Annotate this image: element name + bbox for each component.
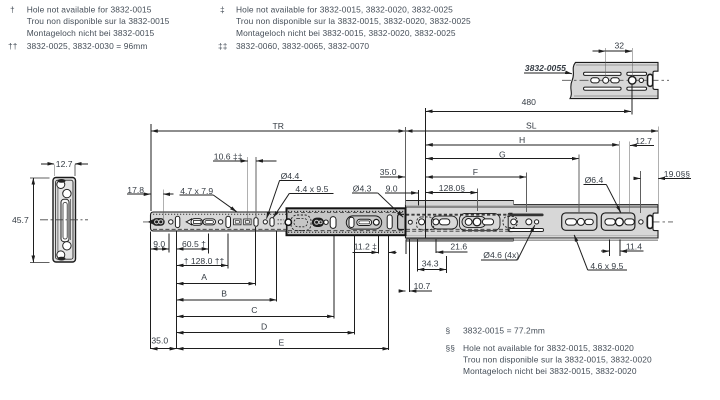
hole rect f: [234, 219, 241, 225]
svg-text:35.0: 35.0: [380, 167, 397, 177]
svg-text:Trou non disponible sur la 383: Trou non disponible sur la 3832-0015, 38…: [463, 355, 652, 365]
hole vertical slot e: [226, 216, 231, 227]
svg-text:H: H: [519, 135, 525, 145]
hidden dashed slot p: [417, 217, 434, 230]
leader 4.7 x 7.9: [180, 186, 237, 212]
svg-text:480: 480: [522, 97, 537, 107]
dim 12.7 right: [630, 136, 654, 213]
dim 19.0: [634, 169, 691, 213]
svg-text:Trou non disponible sur la 383: Trou non disponible sur la 3832-0015: [27, 16, 170, 26]
svg-text:10.6 ‡‡: 10.6 ‡‡: [214, 151, 243, 161]
ball bottom pair: [57, 251, 65, 259]
hole rect g: [244, 219, 251, 225]
hole vertical slot j: [270, 218, 274, 227]
dim 480: [426, 85, 632, 115]
intermediate rail overlap section: [287, 208, 406, 235]
dim 9.0 top: [385, 183, 418, 205]
dim 34.3: [417, 240, 446, 273]
svg-text:B: B: [221, 289, 227, 299]
svg-text:Ø6.4: Ø6.4: [585, 175, 604, 185]
dim 17.8: [127, 185, 174, 221]
svg-text:D: D: [261, 322, 267, 332]
hole circle t: [526, 219, 532, 225]
dim 11.4: [601, 240, 644, 257]
bracket slot o: [398, 214, 404, 229]
leader dia 4.3: [352, 184, 403, 218]
dim 35.0 bottom: [151, 336, 177, 349]
svg-text:‡: ‡: [220, 5, 225, 15]
shared extension line 480-H: [425, 108, 427, 238]
svg-text:32: 32: [615, 41, 625, 51]
hole circle a: [169, 220, 173, 224]
dim C: [177, 236, 334, 319]
svg-text:Hole not available for 3832-00: Hole not available for 3832-0015, 3832-0…: [236, 5, 453, 15]
svg-text:Hole not available for 3832-00: Hole not available for 3832-0015, 3832-0…: [463, 343, 634, 353]
intermediate rail bottom lip: [406, 238, 514, 241]
slot group outline m: [346, 216, 381, 229]
svg-text:Ø4.4: Ø4.4: [281, 171, 300, 181]
hidden dashed slot s: [503, 216, 518, 227]
svg-text:10.7: 10.7: [414, 281, 431, 291]
svg-text:4.4 x 9.5: 4.4 x 9.5: [295, 184, 328, 194]
svg-text:21.6: 21.6: [450, 242, 467, 252]
svg-text:Montageloch nicht bei 3832-001: Montageloch nicht bei 3832-0015, 3832-00…: [236, 28, 456, 38]
note section sign bottom-right: [446, 326, 546, 336]
slot group r: [459, 213, 500, 230]
outer cabinet rail: [406, 205, 659, 241]
hole circle k: [324, 220, 328, 224]
svg-text:128.0§: 128.0§: [439, 183, 466, 193]
dim TR: [151, 121, 405, 211]
retainer cap top: [58, 179, 66, 183]
svg-text:9.0: 9.0: [386, 183, 398, 193]
svg-text:† 128.0 ††: † 128.0 ††: [184, 256, 225, 266]
note double dagger equation: [8, 41, 148, 51]
svg-text:E: E: [279, 338, 285, 348]
hole circle u: [535, 220, 539, 224]
svg-text:35.0: 35.0: [151, 336, 168, 346]
svg-text:45.7: 45.7: [12, 215, 29, 225]
svg-text:12.7: 12.7: [635, 136, 652, 146]
detail top slots: [584, 72, 622, 75]
section inner shell line: [56, 180, 73, 259]
hole circle d: [218, 220, 222, 224]
hidden hole dashes: [278, 220, 284, 224]
dim 35.0 top: [380, 167, 405, 177]
ball circle overlap: [285, 219, 291, 225]
intermediate rail hidden slot bars: [406, 213, 544, 231]
dim 45.7 section height: [12, 178, 50, 262]
dim 10.7: [399, 240, 432, 293]
retainer dark stadium: [312, 218, 324, 227]
dim B: [177, 232, 277, 302]
hole circle front: [408, 220, 412, 224]
dim 21.6: [436, 240, 467, 254]
retainer cap bottom: [58, 257, 66, 261]
svg-text:Hole not available for 3832-00: Hole not available for 3832-0015: [27, 5, 152, 15]
dim A: [177, 227, 256, 286]
label 3832-0055: [524, 63, 572, 74]
cross-section view: [40, 178, 88, 263]
svg-text:F: F: [473, 167, 478, 177]
hole circle x: [639, 220, 643, 224]
svg-text:60.5 †: 60.5 †: [182, 239, 206, 249]
svg-text:SL: SL: [526, 121, 537, 131]
leader 4.6 x 9.5: [574, 235, 627, 271]
dim D: [177, 236, 355, 335]
ball top pair: [57, 181, 65, 189]
note block dagger top-left: [10, 5, 170, 38]
dim 128.0 section: [426, 183, 478, 211]
svg-text:4.6 x 9.5: 4.6 x 9.5: [590, 261, 623, 271]
svg-text:††: ††: [8, 41, 18, 51]
svg-text:C: C: [251, 305, 257, 315]
svg-text:§: §: [446, 326, 451, 336]
svg-text:3832-0025, 3832-0030 = 96mm: 3832-0025, 3832-0030 = 96mm: [27, 41, 148, 51]
svg-text:3832-0015 = 77.2mm: 3832-0015 = 77.2mm: [463, 326, 545, 336]
dim F: [426, 167, 526, 212]
dim 60.5: [177, 234, 209, 254]
svg-text:A: A: [201, 272, 207, 282]
detail view rail 3832-0055: [562, 62, 669, 98]
inner rail end stop: [152, 218, 164, 226]
detail centerline: [562, 79, 669, 81]
dim 10.6: [213, 151, 277, 220]
hole vertical slot y: [647, 215, 652, 228]
hole horizontal slot c: [203, 219, 216, 225]
dim 12.7 section width: [41, 159, 88, 176]
frame group v: [562, 213, 597, 230]
svg-text:§§: §§: [446, 343, 456, 353]
svg-text:TR: TR: [273, 121, 284, 131]
note double section sign block: [446, 343, 653, 376]
svg-text:17.8: 17.8: [127, 185, 144, 195]
slot group q: [431, 216, 457, 229]
dim 11.2: [352, 236, 396, 350]
section centerline: [40, 219, 88, 221]
svg-text:G: G: [499, 150, 506, 160]
leader 4.4 x 9.5: [273, 184, 333, 217]
dim 9.0 bottom: [151, 234, 169, 253]
svg-text:Trou non disponible sur la 383: Trou non disponible sur la 3832-0015, 38…: [236, 16, 471, 26]
leader dia 6.4: [584, 175, 621, 212]
svg-text:3832-0060, 3832-0065, 3832-007: 3832-0060, 3832-0065, 3832-0070: [236, 41, 369, 51]
note block double-cross top-middle: [220, 5, 471, 38]
svg-text:9.0: 9.0: [153, 239, 165, 249]
svg-text:19.0§§: 19.0§§: [664, 169, 691, 179]
svg-text:Montageloch nicht bei 3832-001: Montageloch nicht bei 3832-0015: [27, 28, 155, 38]
dim 128.0 daggers: [177, 234, 228, 269]
hole vertical slot k2: [330, 217, 336, 229]
rail left end tick: [148, 219, 153, 224]
section outer shell: [53, 178, 76, 263]
svg-text:12.7: 12.7: [56, 159, 73, 169]
leader dia 4.4: [267, 171, 302, 219]
bottom left extension lines: [151, 232, 177, 350]
detail holes: [591, 78, 600, 83]
overlap dotted rows: [0, 0, 1, 1]
svg-text:11.2 ‡: 11.2 ‡: [354, 242, 377, 252]
hole vertical slot b: [175, 216, 179, 227]
frame group w: [601, 213, 635, 230]
hole circle i: [263, 220, 267, 224]
svg-text:Montageloch nicht bei 3832-001: Montageloch nicht bei 3832-0015, 3832-00…: [463, 366, 637, 376]
dim SL: [405, 121, 658, 205]
dim G: [426, 150, 579, 212]
hole vertical slot n: [387, 215, 392, 229]
hidden dashed group: [291, 215, 311, 231]
section drawer profile: [61, 199, 69, 241]
main view centerline: [143, 221, 673, 223]
svg-text:‡‡: ‡‡: [218, 41, 228, 51]
svg-text:11.4: 11.4: [626, 241, 642, 251]
hole arrow slot: [186, 219, 202, 226]
detail bottom slots: [584, 87, 622, 90]
svg-text:Ø4.6 (4x): Ø4.6 (4x): [483, 250, 519, 260]
dim 32: [593, 41, 633, 77]
svg-text:34.3: 34.3: [422, 258, 439, 268]
dim H: [426, 135, 619, 213]
intermediate rail top lip: [406, 200, 514, 205]
svg-text:Ø4.3: Ø4.3: [353, 184, 372, 194]
note double-cross list: [218, 41, 369, 51]
svg-text:3832-0055: 3832-0055: [525, 63, 566, 73]
svg-text:†: †: [10, 5, 15, 15]
inner drawer rail: [151, 212, 287, 231]
dim E: [177, 338, 389, 349]
hole vertical slot h: [254, 218, 258, 227]
leader dia 4.6: [481, 225, 535, 260]
